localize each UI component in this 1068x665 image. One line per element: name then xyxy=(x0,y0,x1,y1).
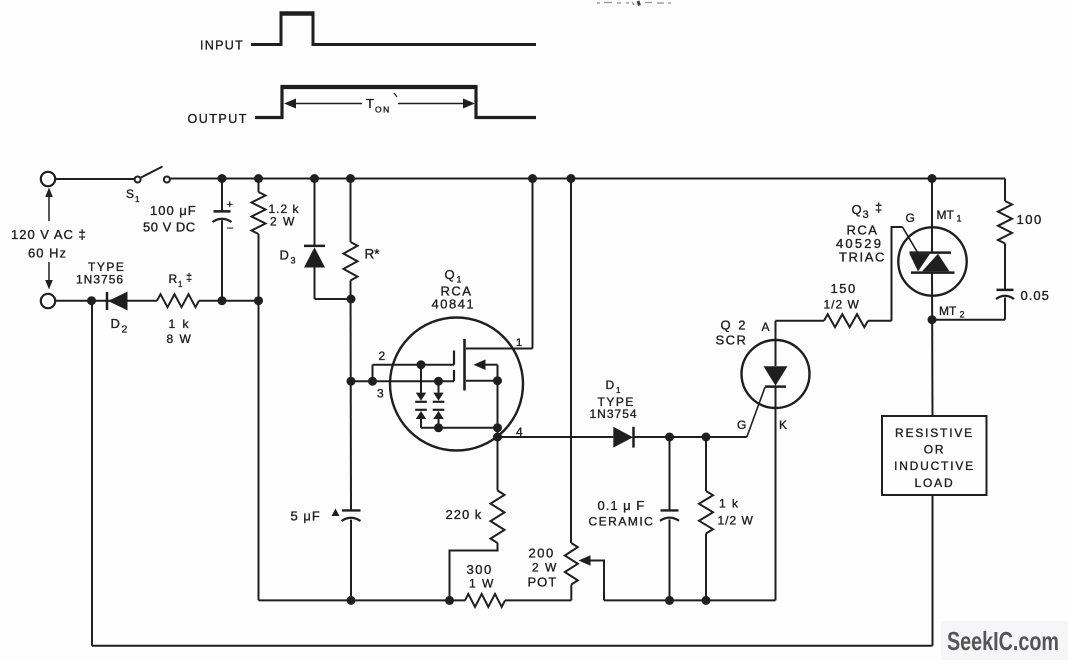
svg-text:100 μF: 100 μF xyxy=(150,203,197,218)
svg-text:60 Hz: 60 Hz xyxy=(28,246,67,261)
svg-text:1: 1 xyxy=(616,386,621,395)
svg-text:1N3756: 1N3756 xyxy=(76,273,124,287)
svg-text:MT: MT xyxy=(937,208,955,222)
svg-text:0.1 μ F: 0.1 μ F xyxy=(598,498,646,513)
svg-text:2: 2 xyxy=(379,349,386,363)
svg-text:40841: 40841 xyxy=(432,297,476,312)
svg-text:150: 150 xyxy=(831,281,857,296)
svg-text:LOAD: LOAD xyxy=(915,476,955,490)
svg-text:+: + xyxy=(227,199,233,211)
svg-text:ON: ON xyxy=(375,105,391,115)
svg-text:3: 3 xyxy=(377,387,384,401)
svg-text:50 V DC: 50 V DC xyxy=(143,220,196,235)
svg-text:G: G xyxy=(906,211,915,225)
svg-text:R: R xyxy=(169,272,178,286)
svg-text:D: D xyxy=(111,316,120,331)
svg-text:OUTPUT: OUTPUT xyxy=(188,112,248,126)
svg-text:1: 1 xyxy=(135,195,140,204)
svg-text:A: A xyxy=(762,320,770,334)
svg-text:2: 2 xyxy=(122,324,128,336)
svg-text:1 W: 1 W xyxy=(469,577,495,591)
svg-text:G: G xyxy=(737,418,746,432)
svg-text:Q: Q xyxy=(852,202,862,217)
svg-text:S: S xyxy=(126,187,134,201)
svg-text:−: − xyxy=(227,221,234,235)
svg-text:2: 2 xyxy=(960,310,965,320)
svg-text:1: 1 xyxy=(957,214,962,224)
svg-text:5 μF: 5 μF xyxy=(291,509,321,524)
svg-text:3: 3 xyxy=(863,209,869,221)
svg-text:Q: Q xyxy=(445,267,455,282)
svg-text:D: D xyxy=(280,248,289,263)
svg-text:100: 100 xyxy=(1017,212,1043,227)
svg-text:SeekIC.com: SeekIC.com xyxy=(947,626,1059,656)
svg-text:TRIAC: TRIAC xyxy=(839,250,886,265)
svg-text:INDUCTIVE: INDUCTIVE xyxy=(894,459,975,473)
svg-text:1N3754: 1N3754 xyxy=(590,407,638,421)
svg-text:‡: ‡ xyxy=(186,272,192,284)
svg-text:1 k: 1 k xyxy=(719,497,740,511)
svg-text:1: 1 xyxy=(178,280,183,289)
svg-text:220 k: 220 k xyxy=(446,507,483,522)
svg-text:120 V AC ‡: 120 V AC ‡ xyxy=(11,227,87,242)
svg-text:1 k: 1 k xyxy=(169,317,191,331)
svg-text:1/2 W: 1/2 W xyxy=(718,514,754,528)
svg-text:Q 2: Q 2 xyxy=(721,318,748,333)
svg-text:POT: POT xyxy=(528,575,558,590)
svg-text:INPUT: INPUT xyxy=(200,39,244,53)
svg-text:1/2 W: 1/2 W xyxy=(824,298,860,312)
svg-text:SCR: SCR xyxy=(716,333,748,348)
svg-text:200: 200 xyxy=(529,546,555,561)
svg-text:1: 1 xyxy=(516,337,522,349)
svg-text:OR: OR xyxy=(924,443,946,457)
svg-text:‡: ‡ xyxy=(875,200,882,215)
svg-text:RESISTIVE: RESISTIVE xyxy=(895,426,974,440)
svg-text:R*: R* xyxy=(365,247,381,262)
svg-text:K: K xyxy=(779,418,787,432)
svg-text:2 W: 2 W xyxy=(270,215,296,229)
svg-text:CERAMIC: CERAMIC xyxy=(589,515,655,529)
svg-text:T: T xyxy=(366,96,374,111)
svg-text:MT: MT xyxy=(939,304,957,318)
svg-text:3: 3 xyxy=(291,256,296,266)
svg-text:D: D xyxy=(606,378,615,392)
svg-text:2 W: 2 W xyxy=(532,561,558,575)
svg-text:8 W: 8 W xyxy=(167,332,193,346)
svg-text:0.05: 0.05 xyxy=(1021,288,1050,303)
svg-text:300: 300 xyxy=(467,562,493,577)
